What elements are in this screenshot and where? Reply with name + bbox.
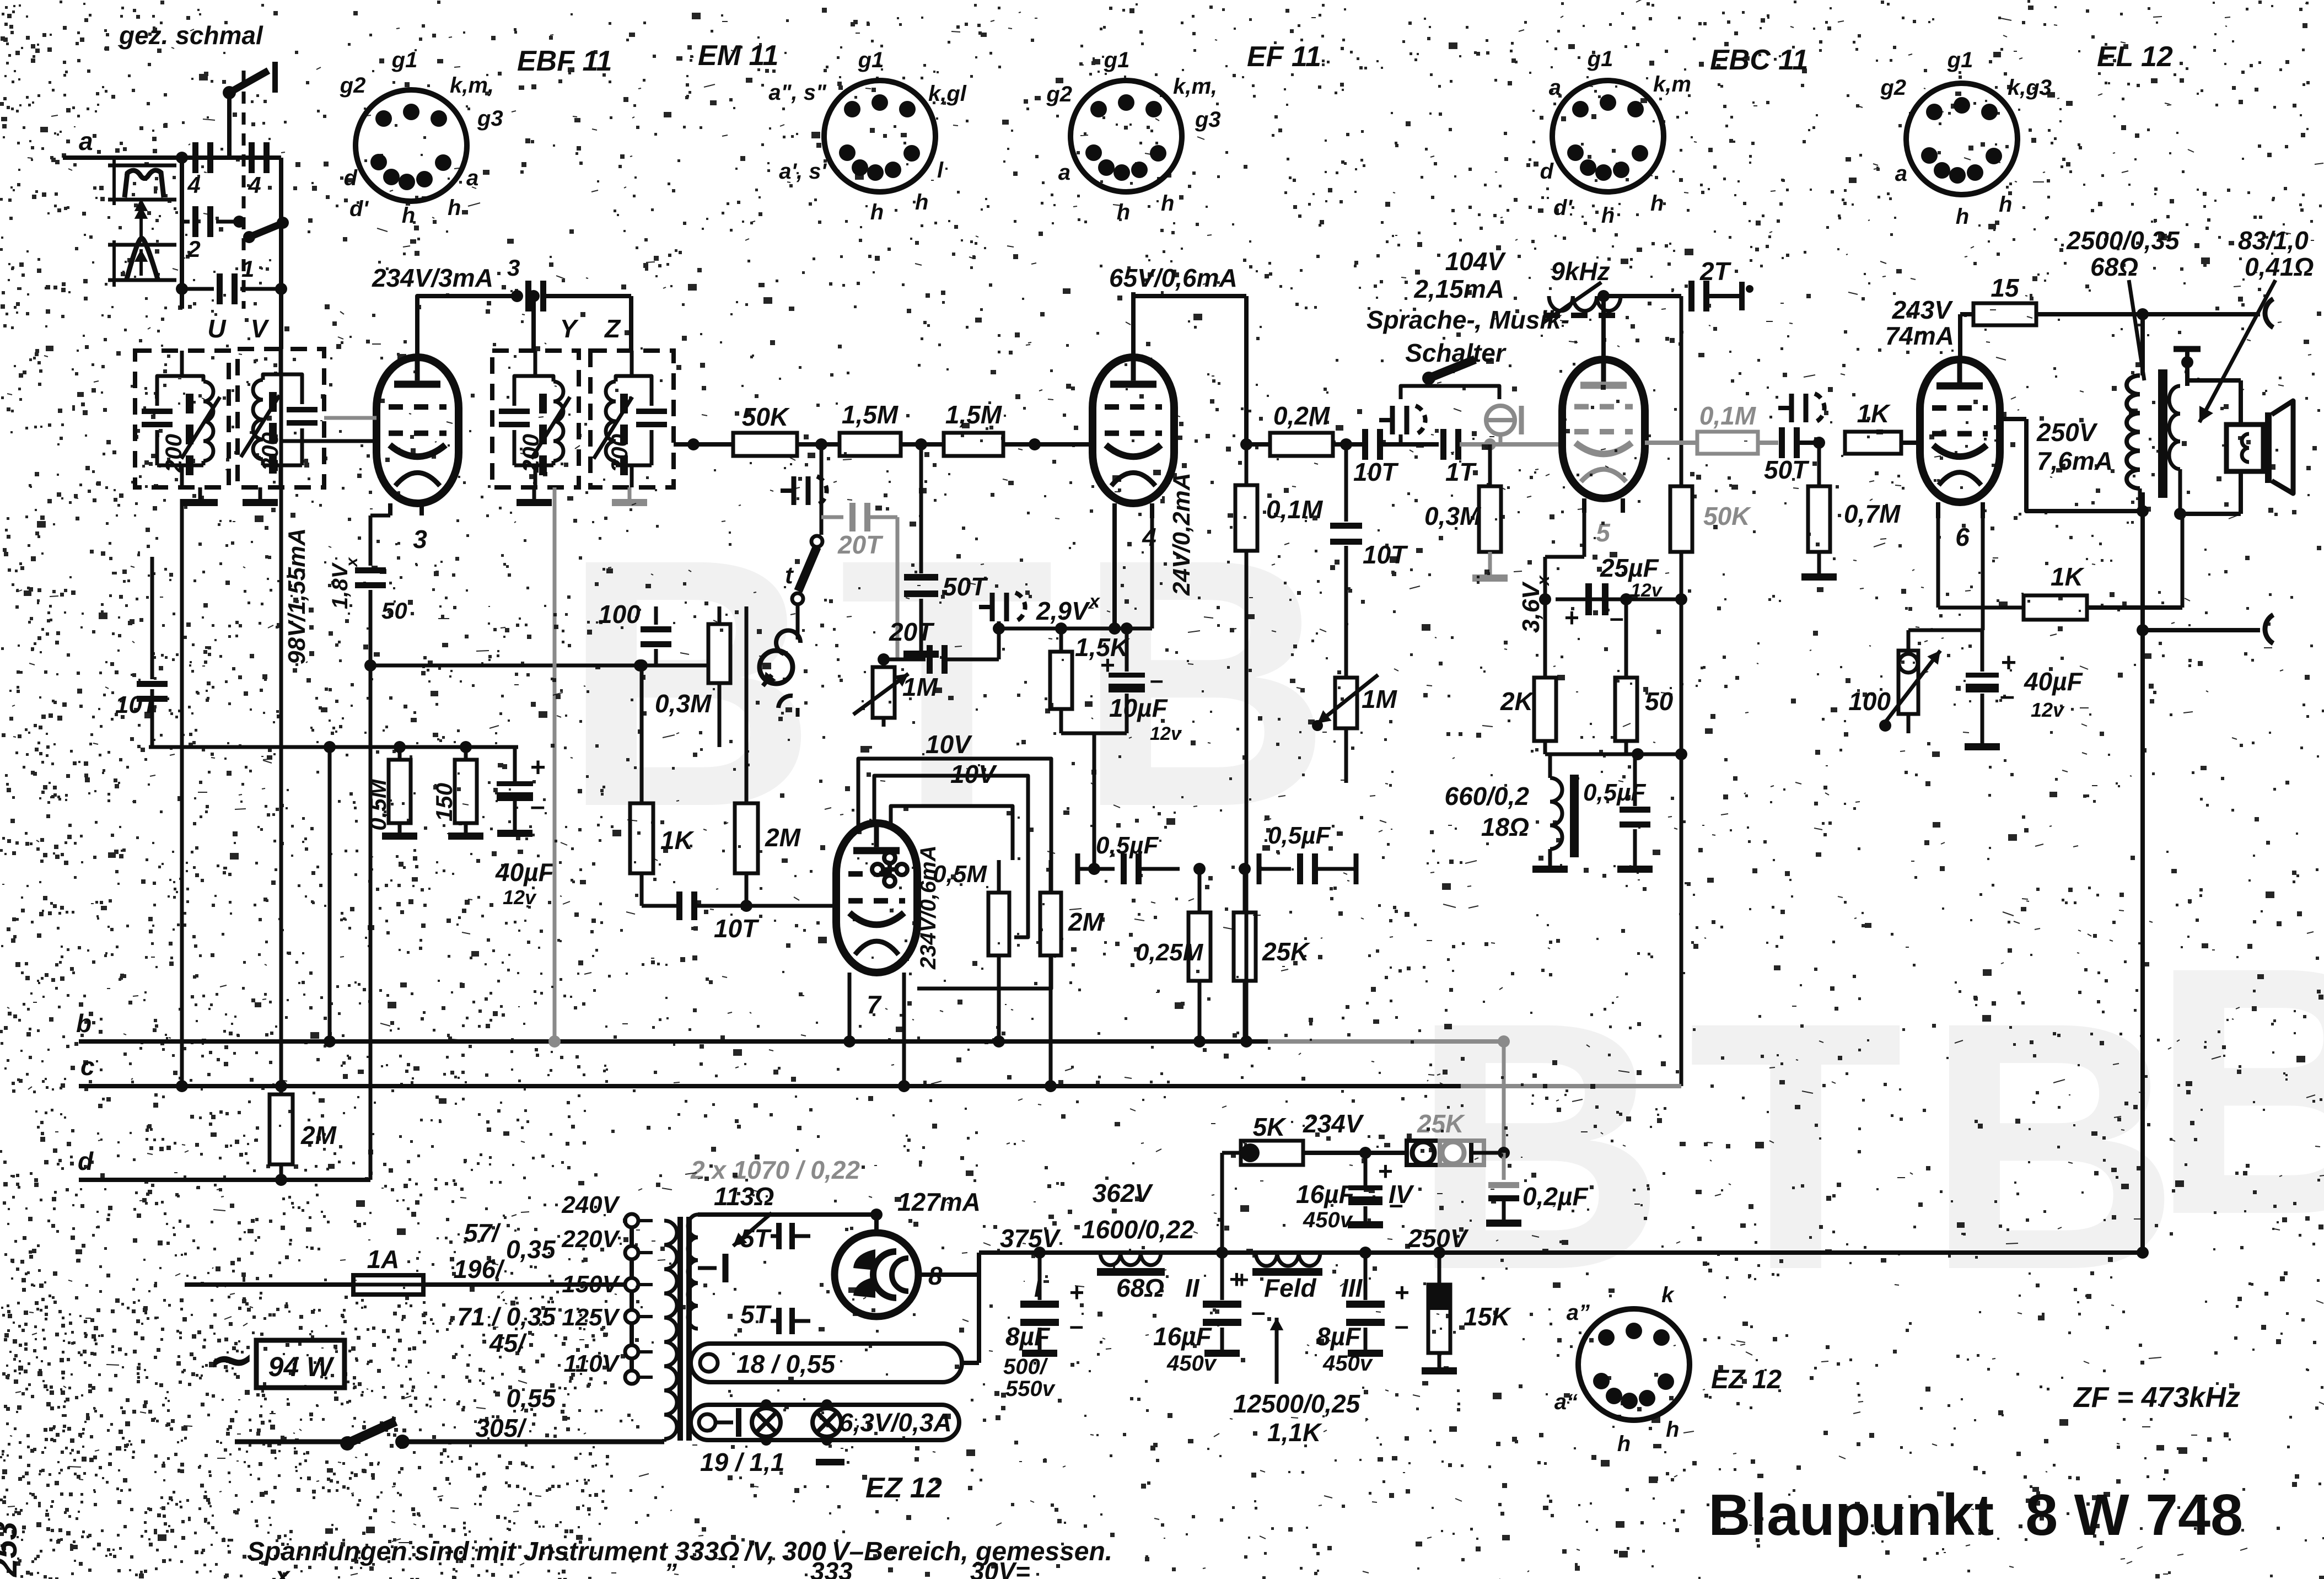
resistor 15K bleeder — [1422, 1253, 1511, 1374]
svg-text:20T: 20T — [889, 617, 935, 646]
tube socket EBC11 — [1540, 47, 1691, 228]
svg-text:660/0,2: 660/0,2 — [1445, 782, 1530, 810]
svg-text:375V: 375V — [1000, 1224, 1061, 1253]
resistor 0,1M h — [1645, 401, 1778, 454]
svg-text:5K: 5K — [1253, 1113, 1287, 1141]
phone jack symbol — [760, 651, 798, 717]
wire dashed switch column — [242, 71, 246, 309]
svg-text:g1: g1 — [1104, 48, 1130, 72]
choke Feld — [1235, 1224, 1469, 1302]
svg-text:333: 333 — [810, 1557, 853, 1579]
svg-text:74mA: 74mA — [1885, 321, 1954, 350]
wire 50K-1,5M — [797, 438, 840, 450]
svg-text:2K: 2K — [1500, 687, 1535, 716]
svg-text:0,3M: 0,3M — [655, 689, 712, 718]
resistor 15 — [1973, 273, 2036, 325]
capacitor 4b — [248, 142, 270, 198]
bus d — [78, 1147, 370, 1180]
capacitor 0,5uF 660 — [1583, 754, 1653, 873]
svg-text:Y: Y — [560, 314, 579, 343]
svg-text:3: 3 — [413, 525, 427, 554]
svg-text:EZ 12: EZ 12 — [865, 1472, 942, 1504]
label 234V/3mA — [372, 264, 493, 292]
resistor 50 — [1615, 599, 1674, 754]
resistor 0,5M em11 — [933, 776, 1009, 1048]
watermark — [562, 486, 2324, 1343]
wire 25K top — [1239, 863, 1259, 912]
label 6,3V/0,3A — [839, 1408, 952, 1437]
switch sprache — [1401, 359, 1499, 399]
svg-text:EL 12: EL 12 — [2097, 41, 2173, 73]
svg-text:30V=: 30V= — [970, 1557, 1030, 1579]
svg-text:9kHz: 9kHz — [1551, 257, 1610, 286]
svg-text:+: + — [1069, 1278, 1084, 1307]
wire cathode 2,9V row — [993, 518, 1152, 635]
svg-text:g1: g1 — [858, 48, 884, 72]
svg-text:+: + — [2001, 648, 2016, 678]
label 104V 2,15mA — [1413, 247, 1506, 303]
wire 1K feedback row — [1938, 514, 2182, 620]
wire 0,2M right — [1333, 438, 1363, 450]
svg-text:125V: 125V — [562, 1304, 620, 1331]
note second line — [274, 1557, 1030, 1579]
capacitor 10T avc — [115, 557, 168, 718]
svg-text:150V: 150V — [562, 1271, 620, 1298]
resistor 1K em11 — [630, 665, 695, 906]
label 305/ — [475, 1414, 527, 1442]
svg-text:2,9V: 2,9V — [1036, 597, 1090, 625]
speaker — [2226, 401, 2293, 493]
svg-text:g3: g3 — [1195, 108, 1221, 132]
svg-text:II: II — [1185, 1274, 1200, 1302]
label 12500/0,25 1,1K — [1233, 1318, 1361, 1447]
capacitor 2T — [1688, 257, 1753, 311]
svg-text:a: a — [1058, 160, 1070, 185]
svg-text:–: – — [1251, 1297, 1266, 1326]
svg-text:a: a — [79, 127, 93, 155]
ground under Z — [612, 487, 647, 506]
svg-text:500/: 500/ — [1003, 1355, 1048, 1379]
svg-text:Feld: Feld — [1264, 1274, 1316, 1302]
wire Z bottom join — [629, 444, 630, 487]
tube EL12 V6 — [1920, 359, 2000, 551]
label 220V — [561, 1226, 620, 1253]
label 19/1,1 — [700, 1448, 784, 1476]
coil 9kHz — [1543, 257, 1626, 323]
capacitor 10uF — [1100, 629, 1182, 744]
label EL 12 — [2097, 41, 2173, 73]
capacitor 20T b — [878, 617, 999, 674]
svg-text:10V: 10V — [926, 730, 972, 759]
svg-text:t: t — [785, 562, 794, 589]
choke 1600/0,22 — [1082, 1215, 1200, 1302]
label 243V 74mA — [1885, 296, 1954, 350]
svg-text:0,35: 0,35 — [506, 1235, 556, 1264]
svg-text:113Ω: 113Ω — [714, 1182, 774, 1211]
svg-text:h: h — [1666, 1417, 1679, 1442]
capacitor 40uF el12 — [1965, 630, 2084, 750]
svg-text:6,3V/0,3A: 6,3V/0,3A — [839, 1408, 952, 1437]
wire 10V inner — [874, 760, 1028, 937]
wire grid return row — [518, 606, 719, 607]
capacitor 50 — [355, 567, 407, 665]
svg-text:98V/1,55mA: 98V/1,55mA — [283, 528, 310, 664]
label EBC 11 — [1710, 44, 1808, 76]
wire secondary bottom — [2174, 471, 2241, 520]
svg-text:g2: g2 — [340, 73, 366, 98]
ground under V — [243, 487, 278, 506]
wire t chain — [820, 444, 824, 535]
svg-text:+: + — [1100, 651, 1115, 679]
svg-text:25K: 25K — [1417, 1109, 1465, 1138]
svg-text:h: h — [915, 190, 928, 214]
label EBF 11 — [517, 45, 612, 77]
svg-text:240V: 240V — [561, 1191, 620, 1218]
svg-text:450v: 450v — [1166, 1351, 1218, 1376]
svg-text:45/: 45/ — [489, 1329, 527, 1357]
svg-text:a', s': a', s' — [779, 159, 827, 184]
label EM 11 — [698, 40, 778, 72]
svg-text:12v: 12v — [503, 886, 537, 909]
svg-text:0,5µF: 0,5µF — [1268, 822, 1331, 849]
svg-text:k: k — [1661, 1283, 1675, 1307]
label 0,55 — [506, 1384, 556, 1412]
wire em11 feeds — [636, 606, 746, 672]
svg-text:h: h — [402, 203, 415, 228]
wire 5K to IV — [1303, 1147, 1407, 1159]
B+ rail 375V — [979, 1224, 2149, 1259]
svg-text:20T: 20T — [837, 530, 884, 559]
svg-text:EM 11: EM 11 — [698, 40, 778, 72]
capacitor 1 — [176, 256, 287, 304]
wire t to phones — [776, 604, 800, 654]
wire avc to bus b — [324, 747, 336, 1048]
svg-text:”: ” — [664, 1558, 677, 1579]
svg-text:g3: g3 — [477, 106, 503, 131]
label EF 11 — [1247, 41, 1321, 73]
svg-text:1K: 1K — [2051, 562, 2085, 591]
label Blaupunkt 8W748 — [1708, 1483, 2243, 1548]
svg-text:7,6mA: 7,6mA — [2037, 447, 2113, 475]
svg-text:16µF: 16µF — [1296, 1180, 1355, 1209]
label 110V — [564, 1350, 621, 1377]
svg-text:1,8V: 1,8V — [328, 562, 352, 609]
wire 0,3M down — [719, 746, 720, 748]
wire rect top — [870, 1209, 883, 1233]
transformer core — [677, 1217, 692, 1441]
tube4 legs — [1109, 503, 1152, 635]
svg-text:10T: 10T — [1353, 458, 1399, 486]
capacitor 1T — [1440, 429, 1562, 486]
svg-text:gez. schmal: gez. schmal — [119, 21, 263, 50]
resistor 5K — [1241, 1113, 1303, 1165]
tube EM11 V7 — [836, 823, 917, 1019]
svg-text:k,g3: k,g3 — [2008, 76, 2052, 100]
wire 0,5M top — [997, 860, 1001, 893]
resistor 1,5K — [1050, 629, 1130, 733]
resistor 2M lower-left — [270, 1086, 337, 1186]
svg-text:50: 50 — [1645, 687, 1674, 716]
wire 660 row — [1545, 748, 1687, 760]
capacitor 5T b — [740, 1300, 810, 1334]
label 234V ps — [1303, 1109, 1364, 1138]
wire tube4 plate out — [1133, 320, 1134, 357]
node a antenna — [79, 127, 93, 155]
svg-text:h: h — [1601, 203, 1615, 228]
svg-text:Z: Z — [604, 314, 621, 343]
capacitor 10T shunt — [1330, 444, 1408, 678]
svg-text:1K: 1K — [1857, 399, 1891, 428]
svg-text:g1: g1 — [1587, 47, 1613, 71]
IF transformer Z — [590, 314, 674, 487]
wire 10V outer — [858, 730, 1051, 989]
winding 18/0,55 — [691, 1344, 962, 1382]
wire tube5 out — [1645, 441, 1651, 442]
svg-text:243V: 243V — [1892, 296, 1954, 324]
label 65V/0,6mA — [1109, 264, 1238, 292]
wire avc row — [149, 741, 518, 753]
label Sprache Musik — [1367, 305, 1569, 367]
svg-text:0,2µF: 0,2µF — [1523, 1182, 1589, 1211]
tube7 legs — [843, 973, 910, 1092]
label 150V — [562, 1271, 620, 1298]
resistor 0,1M vert — [1235, 444, 1324, 1048]
svg-text:–: – — [2000, 681, 2015, 711]
svg-text:1A: 1A — [367, 1245, 400, 1274]
svg-text:BTB: BTB — [1411, 949, 2202, 1343]
svg-text:0,41Ω: 0,41Ω — [2245, 253, 2314, 281]
resistor 25K mid — [1234, 869, 1310, 1041]
output jack bottom — [2265, 615, 2273, 643]
output transformer — [2127, 314, 2241, 514]
wire row tube4 right — [1240, 438, 1270, 450]
capacitor 4a — [187, 142, 213, 198]
svg-text:+: + — [530, 753, 546, 782]
tube EBC11 V5 — [1562, 359, 1645, 547]
label 125V — [562, 1304, 620, 1331]
trimmer sprache right — [1486, 406, 1521, 444]
wire Z feed — [629, 296, 633, 351]
wire 98V vertical — [281, 349, 282, 1086]
svg-text:1M: 1M — [1362, 685, 1398, 713]
svg-text:8µF: 8µF — [1316, 1322, 1362, 1351]
capacitor 0,5uF b — [1259, 822, 1356, 884]
wire vertical V feed — [279, 158, 283, 349]
label 362V — [1093, 1179, 1154, 1207]
svg-text:305/: 305/ — [475, 1414, 527, 1442]
svg-text:234V/3mA: 234V/3mA — [372, 264, 493, 292]
capacitor 10T em11 — [642, 891, 836, 943]
wire 5K riser — [1222, 1153, 1244, 1293]
wire 250V row — [2000, 419, 2149, 517]
resistor 2K — [1500, 599, 1556, 754]
svg-text:Sprache-, Musik-: Sprache-, Musik- — [1367, 305, 1569, 334]
label 45/ — [489, 1329, 527, 1357]
svg-text:–: – — [1150, 667, 1163, 694]
label ZF=473kHz — [2073, 1382, 2240, 1414]
wire rect output — [876, 1215, 979, 1275]
potentiometer 100 el12 — [1848, 630, 1940, 733]
resistor 0,3M — [655, 606, 730, 747]
wire feedback vertical — [2137, 314, 2149, 1254]
svg-text:0,2M: 0,2M — [1273, 401, 1331, 430]
svg-text:IV: IV — [1389, 1180, 1414, 1209]
svg-text:a”: a” — [1567, 1301, 1590, 1325]
svg-text:1600/0,22: 1600/0,22 — [1082, 1215, 1195, 1244]
svg-text:c: c — [80, 1052, 95, 1081]
svg-text:16µF: 16µF — [1153, 1322, 1213, 1351]
label 2,9Vx — [1036, 591, 1101, 625]
svg-text:450v: 450v — [1303, 1208, 1354, 1232]
svg-text:k,m,: k,m, — [1173, 74, 1217, 99]
resistor 1K grid — [1845, 399, 1920, 454]
resistor 2M em11 right — [1040, 759, 1105, 1092]
svg-text:h: h — [1617, 1432, 1631, 1456]
svg-text:+: + — [1395, 1278, 1410, 1307]
capacitor 50T — [903, 444, 988, 658]
HV center tap cap — [698, 1254, 725, 1282]
tube socket EL12 — [1880, 48, 2052, 229]
transformer primary taps — [625, 1214, 638, 1384]
wire plate to 0,2M — [1174, 441, 1270, 442]
svg-text:50T: 50T — [943, 572, 988, 601]
svg-text:25K: 25K — [1262, 937, 1310, 966]
svg-text:h: h — [1161, 191, 1174, 216]
mains switch — [235, 1421, 664, 1451]
resistor 50K ebc — [1670, 486, 1751, 1086]
svg-text:–: – — [1395, 1311, 1409, 1340]
svg-text:450v: 450v — [1322, 1351, 1374, 1376]
label 196/ — [453, 1255, 505, 1283]
page number rotated — [0, 1522, 24, 1577]
svg-text:h: h — [448, 196, 461, 220]
capacitor 20T grey — [821, 503, 897, 659]
wire 18 winding out — [962, 1275, 979, 1363]
wire grey 25K up — [1498, 1035, 1510, 1153]
svg-text:2 x 1070 / 0,22: 2 x 1070 / 0,22 — [690, 1156, 860, 1184]
resistor 2M em11 — [735, 637, 801, 912]
svg-text:EF 11: EF 11 — [1247, 41, 1321, 73]
resistor 0,25M — [1136, 863, 1211, 1048]
svg-text:83/1,0: 83/1,0 — [2238, 226, 2309, 255]
svg-text:0,7M: 0,7M — [1844, 500, 1901, 528]
waveform sketch narrow — [108, 238, 176, 287]
box 94W — [256, 1340, 345, 1388]
trimmer mid — [979, 593, 1025, 659]
svg-text:3,6V: 3,6V — [1518, 581, 1545, 633]
tube5 legs — [1584, 498, 1623, 513]
wire fuse to transformer — [423, 1279, 638, 1291]
resistor 0,5M left — [365, 747, 417, 840]
choke 660/0,2 18ohm — [1445, 754, 1579, 873]
wire V chain vertical — [275, 349, 287, 1092]
pointer 113 — [733, 1213, 772, 1246]
svg-text:10V-: 10V- — [950, 760, 1003, 788]
svg-text:12v: 12v — [2031, 699, 2065, 721]
wire grid tube3 — [281, 418, 376, 441]
svg-text:g1: g1 — [391, 48, 418, 72]
svg-text:g2: g2 — [1880, 76, 1906, 100]
svg-text:40µF: 40µF — [495, 858, 555, 887]
IF transformer Y — [492, 314, 579, 487]
svg-text:127mA: 127mA — [897, 1188, 981, 1216]
capacitor I 8uF — [1003, 1253, 1084, 1401]
label gez. schmal — [119, 21, 263, 50]
trimmer sprache left — [1379, 406, 1425, 444]
svg-text:„: „ — [556, 1558, 569, 1579]
resistor 1,5M a — [840, 400, 901, 456]
svg-text:250V: 250V — [2036, 418, 2098, 447]
svg-text:1,1K: 1,1K — [1267, 1418, 1322, 1447]
svg-text:Blaupunkt: Blaupunkt — [1708, 1483, 1994, 1548]
label 24V/0,2mA rotated — [1168, 472, 1195, 596]
svg-text:a: a — [1895, 162, 1907, 186]
svg-text:0,25M: 0,25M — [1136, 939, 1204, 966]
pointer 2500 — [2129, 280, 2144, 380]
svg-text:h: h — [870, 200, 884, 224]
wire 65V plate — [1133, 292, 1246, 444]
resistor 0,7M — [1801, 443, 1901, 581]
svg-text:0,5µF: 0,5µF — [1096, 832, 1159, 859]
label 2x1070/0,22 grey — [690, 1156, 860, 1184]
resistor 1,5M b — [944, 400, 1003, 456]
label 98V/1,55mA rotated — [283, 528, 310, 664]
svg-text:220V: 220V — [561, 1226, 620, 1253]
label ~ — [208, 1329, 255, 1390]
tube socket EZ12 — [1554, 1283, 1690, 1456]
wire plate supply 234V — [417, 290, 523, 357]
label 234V/0,6mA rotated — [916, 845, 940, 970]
svg-text:ZF = 473kHz: ZF = 473kHz — [2073, 1382, 2240, 1414]
potentiometer 1M ef11 — [1312, 675, 1398, 783]
label 83/1,0 0,41ohm — [2238, 226, 2314, 281]
svg-text:1M: 1M — [902, 673, 939, 701]
capacitor 100 — [598, 600, 671, 665]
svg-text:68Ω: 68Ω — [2090, 253, 2138, 281]
tube6 legs — [1938, 502, 1983, 518]
svg-text:2,15mA: 2,15mA — [1413, 275, 1504, 303]
potentiometer 1M volume — [853, 659, 939, 727]
svg-text:–: – — [1610, 603, 1624, 632]
capacitor III 8uF — [1365, 1253, 1366, 1300]
svg-text:57/: 57/ — [464, 1218, 501, 1247]
tube EF11 V4 — [1093, 357, 1174, 551]
label 113ohm — [714, 1182, 774, 1211]
svg-text:2T: 2T — [1699, 257, 1732, 286]
capacitor 3 series — [507, 255, 631, 311]
mains fuse 1A — [185, 1245, 423, 1295]
wire cathode return to d — [364, 659, 376, 1180]
svg-text:68Ω: 68Ω — [1116, 1274, 1164, 1302]
transformer HV secondary — [688, 1215, 698, 1329]
svg-text:EBF 11: EBF 11 — [517, 45, 612, 77]
svg-text:g1: g1 — [1947, 48, 1973, 72]
svg-text:x: x — [274, 1561, 291, 1579]
pointer 83 — [2199, 280, 2275, 422]
bus c — [79, 1052, 1681, 1086]
svg-text:234V: 234V — [1303, 1109, 1364, 1138]
tube socket EBF11 — [340, 48, 503, 228]
svg-text:+: + — [1235, 1266, 1249, 1293]
svg-text:18 / 0,55: 18 / 0,55 — [736, 1350, 836, 1378]
svg-text:a", s": a", s" — [768, 80, 827, 105]
capacitor 5T a — [740, 1223, 810, 1253]
wire output jack row2 — [2143, 628, 2260, 632]
pilot lamp a — [752, 1408, 781, 1437]
svg-text:25µF: 25µF — [1600, 554, 1660, 582]
label 1,8Vx rotated — [328, 557, 361, 609]
svg-text:d: d — [1540, 159, 1554, 184]
